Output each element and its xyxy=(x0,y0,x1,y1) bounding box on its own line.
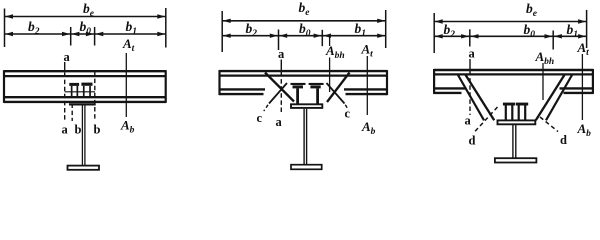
section line a fig1 xyxy=(64,62,66,72)
bottom flange fig1 xyxy=(68,166,100,170)
bent bar c left fig2 xyxy=(269,83,287,104)
slab top line 2 fig3 xyxy=(434,73,593,75)
stud shank 3 fig3 xyxy=(518,106,520,120)
stud shank 4 fig3 xyxy=(524,106,526,120)
slab bottom line 2 right fig3 xyxy=(564,92,594,94)
slab bottom line 2 left fig3 xyxy=(434,92,462,94)
stud shank 3 fig1 xyxy=(83,86,85,97)
svg-text:a: a xyxy=(276,115,283,129)
stud unit right head bar fig3 xyxy=(516,103,528,106)
svg-text:a: a xyxy=(465,114,472,128)
stud head right top bar fig2 xyxy=(309,83,324,85)
leader A_t to A_b fig2 xyxy=(366,56,368,115)
extension line left fig1 xyxy=(4,9,6,48)
stud unit 2 head bar fig1 xyxy=(81,83,92,86)
extension line left fig2 xyxy=(221,11,223,52)
stud shank 2 fig1 xyxy=(77,86,79,97)
leader A_t to A_b fig1 xyxy=(125,53,127,117)
svg-text:b: b xyxy=(75,123,82,137)
slab bottom line 2 fig1 xyxy=(4,101,166,103)
dimension line b_e fig1 xyxy=(5,16,166,18)
section line b right fig1 xyxy=(94,72,96,122)
extension line right fig3 xyxy=(586,10,588,48)
tick b2/b0 fig1 xyxy=(70,27,72,46)
slab right edge fig2 xyxy=(386,70,388,95)
tick b0/b1 fig3 xyxy=(552,31,554,50)
rebar line mid slab fig1 xyxy=(65,91,95,93)
svg-text:c: c xyxy=(257,111,263,125)
web right line fig3 xyxy=(515,124,517,158)
section line b left fig1 xyxy=(71,104,73,122)
bent bar c right fig2 xyxy=(327,83,345,104)
svg-text:a: a xyxy=(62,123,69,137)
dimension line b_e fig3 xyxy=(434,21,586,23)
stud head left top bar fig2 xyxy=(291,83,306,85)
web left line fig2 xyxy=(303,109,305,165)
web right line fig1 xyxy=(84,106,86,166)
svg-text:a: a xyxy=(469,47,476,61)
slab right edge fig3 xyxy=(592,69,594,94)
slab top line 1 fig3 xyxy=(434,69,593,71)
slab top line 1 fig2 xyxy=(219,70,387,72)
slab bottom line 2 left fig2 xyxy=(219,93,263,95)
stud head left body fig2 xyxy=(293,85,304,88)
leader c left fig2 xyxy=(264,105,268,111)
svg-text:d: d xyxy=(560,133,567,147)
stud shank left fig2 xyxy=(296,88,299,104)
haunch slope left fig3 xyxy=(465,75,494,121)
extension line right fig2 xyxy=(385,10,387,48)
slab bottom line 1 left fig3 xyxy=(434,87,466,89)
bent bar d left fig3 xyxy=(458,75,484,121)
svg-text:b: b xyxy=(94,123,101,137)
leader A_bh fig3 xyxy=(542,63,544,100)
slab left edge fig2 xyxy=(218,70,220,95)
stud shank 4 fig1 xyxy=(89,86,91,97)
leader d right fig3 xyxy=(540,117,558,132)
slab left edge fig3 xyxy=(433,69,435,94)
tick b0/b1 fig2 xyxy=(321,30,323,46)
slab bottom line 2 right fig2 xyxy=(346,93,388,95)
haunch slope left fig2 xyxy=(265,73,294,102)
stud shank 1 fig1 xyxy=(71,86,73,97)
dimension line b2 b0 b1 fig3 xyxy=(434,35,586,37)
slab right edge fig1 xyxy=(165,70,167,103)
web left line fig3 xyxy=(512,124,514,158)
web right line fig2 xyxy=(306,109,308,165)
slab top line 2 fig2 xyxy=(219,74,387,76)
stud shank right fig2 xyxy=(316,88,319,104)
dimension line b2 b0 b1 fig1 xyxy=(5,33,166,35)
slab bottom line 1 right fig2 xyxy=(344,88,387,90)
slab left edge fig1 xyxy=(3,70,5,103)
leader A_bh fig2 xyxy=(329,37,331,47)
stud shank 2 fig3 xyxy=(511,106,513,120)
slab top line 1 fig1 xyxy=(4,70,166,72)
stud shank 1 fig3 xyxy=(505,106,507,120)
svg-text:d: d xyxy=(469,134,476,148)
stud unit 1 head bar fig1 xyxy=(69,83,79,86)
haunch slope right fig3 xyxy=(536,75,565,121)
extension line left fig3 xyxy=(433,13,435,53)
slab top line 2 fig1 xyxy=(4,75,166,77)
top flange fig3 xyxy=(498,120,536,124)
section line a fig2 xyxy=(280,60,282,72)
leader c right fig2 xyxy=(345,105,348,110)
top flange fig2 xyxy=(291,104,322,108)
tick b2/b0 fig2 xyxy=(278,30,280,51)
web left line fig1 xyxy=(81,106,83,166)
slab bottom line 1 left fig2 xyxy=(219,88,265,90)
bottom flange fig2 xyxy=(291,165,322,170)
stud head right body fig2 xyxy=(310,85,320,88)
slab bottom line 1 right fig3 xyxy=(560,87,594,89)
svg-text:a: a xyxy=(64,50,71,64)
extension line right fig1 xyxy=(165,8,167,48)
tick b0/b1 fig1 xyxy=(94,27,96,46)
bottom flange fig3 xyxy=(495,158,537,162)
bent bar d right fig3 xyxy=(546,75,572,121)
section line a fig3 xyxy=(469,59,471,70)
leader d left fig3 xyxy=(474,107,498,133)
top flange fig1 xyxy=(69,103,96,105)
stud unit left head bar fig3 xyxy=(503,103,515,106)
leader A_t to A_b fig3 xyxy=(581,54,583,120)
dimension line b_e fig2 xyxy=(222,20,386,22)
svg-text:a: a xyxy=(278,47,285,61)
svg-text:c: c xyxy=(345,107,351,121)
dimension line b2 b0 b1 fig2 xyxy=(222,35,386,37)
slab bottom line 1 fig1 xyxy=(4,96,166,98)
haunch slope right fig2 xyxy=(327,73,350,103)
tick b2/b0 fig3 xyxy=(469,29,471,46)
